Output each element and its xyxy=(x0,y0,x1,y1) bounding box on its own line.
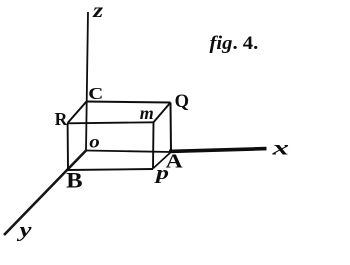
svg-text:m: m xyxy=(140,103,154,123)
y-axis xyxy=(4,151,86,236)
edge p-A (bottom right oblique) xyxy=(153,152,171,169)
svg-text:z: z xyxy=(92,0,104,22)
edge C-Q (top back) xyxy=(87,102,171,103)
svg-text:C: C xyxy=(88,84,103,103)
z-axis xyxy=(86,12,88,151)
edge m-p (right front vertical) xyxy=(152,122,155,168)
svg-text:fig. 4.: fig. 4. xyxy=(210,33,259,54)
edge m-Q (top right oblique) xyxy=(154,103,171,123)
edge B-p (bottom front) xyxy=(68,169,153,170)
svg-text:o: o xyxy=(89,132,100,152)
svg-text:R: R xyxy=(55,109,68,129)
edge R-C (top left oblique) xyxy=(68,102,87,124)
edge Q-A (right back vertical) xyxy=(170,103,173,153)
svg-text:p: p xyxy=(154,163,169,184)
svg-text:x: x xyxy=(271,135,289,159)
svg-text:B: B xyxy=(66,167,83,192)
x-axis xyxy=(169,149,267,152)
svg-text:Q: Q xyxy=(175,92,189,112)
edge R-B (left front vertical) xyxy=(67,123,69,170)
edge R-m (top front) xyxy=(68,122,154,123)
edge o-A (bottom back) xyxy=(86,151,171,153)
svg-text:y: y xyxy=(17,220,32,242)
